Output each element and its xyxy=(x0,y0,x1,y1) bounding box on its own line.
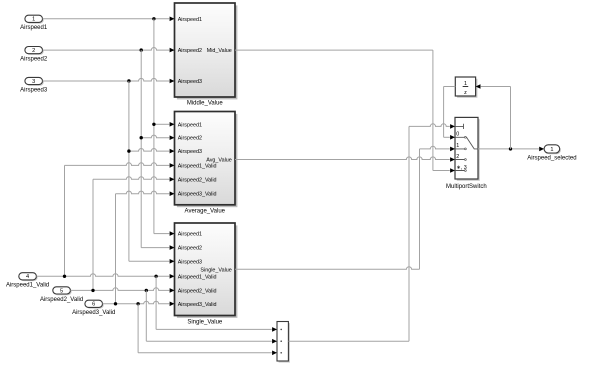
wire Airspeed2_Valid down branch xyxy=(145,290,147,341)
wire Airspeed1 to Average_Value xyxy=(154,123,169,125)
wire feedback to delay xyxy=(481,86,511,88)
wire Mid_Value output xyxy=(235,49,433,51)
arrow into Average_Value Airspeed1 xyxy=(170,122,175,127)
svg-text:Airspeed2_Valid: Airspeed2_Valid xyxy=(178,288,217,294)
wire delay into switch port 0 xyxy=(444,136,450,138)
arrow into Single_Value Airspeed3_Valid xyxy=(170,302,175,307)
arrow into switch port 2 xyxy=(450,157,455,162)
node junction Airspeed1 Average tap xyxy=(152,123,155,126)
wire delay output xyxy=(444,86,456,88)
svg-text:Airspeed1: Airspeed1 xyxy=(178,122,202,128)
port In3 Airspeed3 xyxy=(25,77,44,85)
svg-text:Avg_Value: Avg_Value xyxy=(206,158,232,164)
wire Airspeed3_Valid to Average_Value xyxy=(116,191,170,194)
arrow into Middle_Value Airspeed1 xyxy=(170,17,175,22)
wire Airspeed1_Valid down branch xyxy=(155,276,157,329)
svg-text:2: 2 xyxy=(32,48,35,54)
svg-text:Airspeed2: Airspeed2 xyxy=(178,246,202,252)
wire Airspeed2_Valid up branch xyxy=(92,179,94,290)
svg-text:6: 6 xyxy=(92,302,95,308)
node junction switch output xyxy=(509,147,512,150)
arrow into Single_Value Airspeed3 xyxy=(170,259,175,264)
wire Airspeed1 to Single_Value xyxy=(154,233,169,235)
svg-text:1: 1 xyxy=(550,147,553,153)
svg-text:3: 3 xyxy=(32,79,35,85)
svg-text:1: 1 xyxy=(464,81,467,87)
node junction Airspeed2_Valid down xyxy=(145,289,148,292)
wire Airspeed3_Valid main xyxy=(103,301,170,304)
wire control into switch xyxy=(409,124,450,127)
arrow into Out1 xyxy=(539,147,544,152)
svg-text:MultiportSwitch: MultiportSwitch xyxy=(446,184,487,190)
svg-text:Average_Value: Average_Value xyxy=(185,209,226,215)
wire Airspeed2 branch down xyxy=(140,50,142,248)
arrow into Average_Value Airspeed3_Valid xyxy=(170,191,175,196)
wire Single_Value riser xyxy=(419,149,421,269)
svg-text:4: 4 xyxy=(26,274,29,280)
wire Airspeed1_Valid up branch xyxy=(64,165,66,276)
node junction Airspeed3 xyxy=(127,79,130,82)
node junction Airspeed2 Average tap xyxy=(140,136,143,139)
arrow into Average_Value Airspeed2 xyxy=(170,135,175,140)
svg-text:Airspeed3_Valid: Airspeed3_Valid xyxy=(72,310,115,316)
arrow into switch port 0 xyxy=(450,135,455,140)
port In5 Airspeed2_Valid xyxy=(53,287,72,295)
wire delay output drop xyxy=(443,87,445,138)
wire Airspeed2_Valid main xyxy=(70,288,169,291)
svg-text:Airspeed1_Valid: Airspeed1_Valid xyxy=(178,163,217,169)
node junction Airspeed1 xyxy=(152,17,155,20)
svg-text:Airspeed2_Valid: Airspeed2_Valid xyxy=(40,297,83,303)
svg-text:Airspeed3_Valid: Airspeed3_Valid xyxy=(178,192,217,198)
wire Airspeed2 to Average_Value xyxy=(141,135,169,138)
svg-text:Middle_Value: Middle_Value xyxy=(187,101,224,107)
arrow into Average_Value Airspeed3 xyxy=(170,149,175,154)
svg-text:Single_Value: Single_Value xyxy=(200,267,231,273)
svg-text:Airspeed3: Airspeed3 xyxy=(178,79,202,85)
wire Airspeed2_Valid to Average_Value xyxy=(93,177,169,180)
wire valid3 into selector xyxy=(138,352,272,354)
svg-text:Airspeed1: Airspeed1 xyxy=(20,25,48,31)
svg-text:1: 1 xyxy=(456,143,459,149)
svg-text:z: z xyxy=(464,90,467,96)
arrow into Average_Value Airspeed2_Valid xyxy=(170,177,175,182)
arrow into Single_Value Airspeed1_Valid xyxy=(170,274,175,279)
wire feedback riser xyxy=(510,87,512,149)
wire Airspeed1_Valid main xyxy=(36,274,169,277)
wire Airspeed2 to Single_Value xyxy=(141,247,169,249)
svg-text:Airspeed2: Airspeed2 xyxy=(20,57,48,63)
wire Airspeed1 to Middle_Value xyxy=(43,18,170,20)
node junction Airspeed2 xyxy=(140,48,143,51)
wire Airspeed3_Valid down branch xyxy=(137,304,139,353)
node junction Airspeed1_Valid up xyxy=(63,275,66,278)
delay Z1 Unit Delay 1/z xyxy=(455,77,477,98)
svg-text:Airspeed3: Airspeed3 xyxy=(178,259,202,265)
logic U2 index selector block xyxy=(277,322,290,363)
arrow into Single_Value Airspeed2_Valid xyxy=(170,288,175,293)
svg-text:Airspeed_selected: Airspeed_selected xyxy=(527,155,576,161)
port In4 Airspeed1_Valid xyxy=(19,273,38,281)
port Out1 Airspeed_selected xyxy=(544,145,561,154)
arrow into selector in1 xyxy=(272,327,277,332)
arrow into Average_Value Airspeed1_Valid xyxy=(170,163,175,168)
node junction Airspeed2_Valid up xyxy=(91,289,94,292)
wire Single_Value into switch port 1 xyxy=(420,146,450,149)
port In6 Airspeed3_Valid xyxy=(85,300,104,308)
wire Airspeed3 to Average_Value xyxy=(129,149,169,152)
arrow into selector in2 xyxy=(272,339,277,344)
svg-text:Mid_Value: Mid_Value xyxy=(207,48,232,54)
svg-text:Airspeed2_Valid: Airspeed2_Valid xyxy=(178,177,217,183)
port In2 Airspeed2 xyxy=(25,47,44,55)
wire Airspeed1_Valid to Average_Value xyxy=(65,163,170,166)
node junction Airspeed1_Valid down xyxy=(154,275,157,278)
wire Avg_Value into switch port 2 xyxy=(235,157,450,160)
node junction Airspeed3 Average tap xyxy=(127,149,130,152)
subsystem Single_Value xyxy=(175,223,238,318)
subsystem Middle_Value xyxy=(175,3,238,99)
svg-text:Airspeed2: Airspeed2 xyxy=(178,48,202,54)
node junction Airspeed3_Valid up xyxy=(114,302,117,305)
arrow into switch port 3 xyxy=(450,168,455,173)
svg-text:0: 0 xyxy=(456,132,459,138)
wire Airspeed3 to Middle_Value xyxy=(43,78,170,81)
svg-text:1: 1 xyxy=(32,17,35,23)
svg-text:2: 2 xyxy=(456,154,459,160)
svg-text:Airspeed1_Valid: Airspeed1_Valid xyxy=(6,283,49,289)
wire valid1 into selector xyxy=(156,328,272,330)
arrow into delay input xyxy=(476,84,481,89)
port In1 Airspeed1 xyxy=(25,15,44,23)
svg-text:Airspeed2: Airspeed2 xyxy=(178,136,202,142)
subsystem Average_Value xyxy=(175,112,238,208)
wire valid2 into selector xyxy=(146,340,271,342)
wire Airspeed3 branch down xyxy=(128,81,130,261)
wire Airspeed1 branch down xyxy=(153,19,155,234)
arrow into selector in3 xyxy=(272,351,277,356)
switch U1 MultiportSwitch xyxy=(455,117,480,180)
wire selector output riser xyxy=(408,126,410,341)
wire Airspeed2 to Middle_Value xyxy=(43,47,170,50)
svg-text:Airspeed1: Airspeed1 xyxy=(178,17,202,23)
arrow into switch port 1 xyxy=(450,147,455,152)
svg-text:Single_Value: Single_Value xyxy=(187,320,223,326)
svg-text:Airspeed3_Valid: Airspeed3_Valid xyxy=(178,302,217,308)
svg-text:Airspeed3: Airspeed3 xyxy=(20,87,48,93)
arrow into Single_Value Airspeed2 xyxy=(170,245,175,250)
wire Mid_Value into switch port 3 xyxy=(433,170,450,172)
arrow into Middle_Value Airspeed3 xyxy=(170,79,175,84)
arrow into switch control xyxy=(450,124,455,129)
svg-text:∗, 3: ∗, 3 xyxy=(456,165,467,171)
wire switch output to Out1 xyxy=(478,148,539,150)
svg-text:Airspeed1_Valid: Airspeed1_Valid xyxy=(178,274,217,280)
arrow into Middle_Value Airspeed2 xyxy=(170,48,175,53)
wire selector output xyxy=(288,340,409,342)
node junction Airspeed3_Valid down xyxy=(136,302,139,305)
wire Mid_Value drop xyxy=(432,50,434,170)
arrow into Single_Value Airspeed1 xyxy=(170,231,175,236)
wire Airspeed3_Valid up branch xyxy=(115,194,117,304)
wire Airspeed3 to Single_Value xyxy=(129,260,169,262)
svg-text:5: 5 xyxy=(60,288,63,294)
svg-text:Airspeed3: Airspeed3 xyxy=(178,149,202,155)
wire Single_Value output xyxy=(235,267,420,270)
svg-text:Airspeed1: Airspeed1 xyxy=(178,232,202,238)
